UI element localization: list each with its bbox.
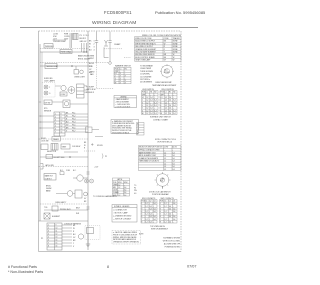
svg-text:PROBE JACK: PROBE JACK (60, 208, 72, 211)
svg-text:P3-2: P3-2 (72, 116, 75, 118)
svg-text:POS: POS (160, 181, 163, 183)
console boundary dashed horizontal (97, 88, 115, 90)
svg-text:WARMER SWITCH: WARMER SWITCH (115, 65, 131, 68)
svg-text:3-4: 3-4 (154, 110, 156, 112)
wire segment row a (55, 85, 61, 87)
svg-text:1-2: 1-2 (164, 152, 166, 154)
left bus ticks (39, 102, 41, 128)
svg-text:SCHEMATIC SHOWN: SCHEMATIC SHOWN (163, 237, 181, 240)
svg-text:SWITCH ASSEMBLY: SWITCH ASSEMBLY (151, 228, 169, 231)
svg-text:3-4: 3-4 (149, 216, 151, 218)
svg-text:NONE: NONE (173, 52, 179, 54)
lock motor assembly (63, 100, 70, 108)
relay K1 labels (85, 86, 87, 95)
svg-text:1-2: 1-2 (164, 169, 166, 171)
control board connector J2 (54, 112, 65, 136)
svg-text:5-6: 5-6 (173, 208, 175, 210)
svg-text:C2: C2 (149, 201, 151, 203)
svg-text:7: 7 (141, 219, 142, 221)
svg-text:N: N (137, 131, 138, 133)
enclosure dashed lock (85, 226, 100, 240)
svg-text:TEMPERATURE ADJUSTMENT: TEMPERATURE ADJUSTMENT (152, 84, 176, 87)
meat probe box (52, 206, 58, 211)
svg-text:11: 11 (56, 231, 58, 233)
svg-text:1-2: 1-2 (164, 221, 166, 223)
svg-text:1: 1 (141, 203, 142, 205)
svg-text:C2: C2 (169, 201, 171, 203)
svg-text:1-2: 1-2 (165, 113, 167, 115)
connector J2 pin numbers (55, 114, 62, 134)
terminal block TB1 (44, 44, 53, 49)
svg-text:3: 3 (160, 208, 161, 210)
svg-text:3: 3 (55, 120, 56, 122)
svg-text:NOTE: NOTE (139, 234, 143, 236)
svg-text:SW2: SW2 (124, 182, 128, 184)
svg-text:C1: C1 (164, 201, 166, 203)
svg-text:C1: C1 (145, 201, 147, 203)
svg-text:5: 5 (160, 108, 161, 110)
svg-text:3-4: 3-4 (149, 214, 151, 216)
timer label box (52, 137, 61, 142)
polarity symbol minus (90, 179, 94, 183)
warning caution text block (111, 120, 139, 134)
P1 wire labels (73, 225, 76, 248)
element hatched block (51, 144, 58, 151)
svg-text:2: 2 (141, 206, 142, 208)
svg-text:3-4: 3-4 (124, 195, 126, 197)
note text block (155, 138, 177, 144)
wire L1 drop (69, 33, 71, 48)
svg-text:8: 8 (141, 221, 142, 223)
svg-text:GND GY: GND GY (80, 41, 88, 43)
svg-text:1 2 3 4: 1 2 3 4 (83, 35, 89, 37)
node dot rail b (83, 51, 84, 52)
svg-text:SYMBOL LEGEND: SYMBOL LEGEND (114, 206, 130, 208)
svg-text:CODE: CODE (164, 38, 170, 40)
connector J2 wires right (65, 114, 88, 132)
wire labels J2 (66, 113, 69, 133)
svg-text:5: 5 (141, 214, 142, 216)
svg-text:2-4: 2-4 (169, 105, 171, 107)
svg-text:2: 2 (160, 206, 161, 208)
svg-text:3-4: 3-4 (173, 100, 175, 102)
svg-text:5-6: 5-6 (153, 219, 155, 221)
svg-text:POS: POS (160, 92, 163, 94)
svg-text:EL: EL (137, 124, 139, 126)
svg-text:▭ OVEN LIGHT SW: ▭ OVEN LIGHT SW (115, 104, 130, 106)
svg-text:12: 12 (61, 126, 63, 128)
svg-text:1-2: 1-2 (165, 97, 167, 99)
svg-text:OFF: OFF (160, 94, 163, 96)
convection motor M1 (60, 85, 67, 96)
svg-text:POSITION DIAGRAM: POSITION DIAGRAM (152, 193, 169, 196)
svg-text:5-6: 5-6 (172, 158, 174, 160)
wire row 193b (73, 193, 75, 195)
relay contact mark (60, 172, 64, 175)
svg-text:P3-5: P3-5 (72, 125, 75, 127)
svg-text:4: 4 (48, 234, 49, 236)
svg-text:6: 6 (48, 240, 49, 242)
svg-text:5-6: 5-6 (153, 211, 155, 213)
svg-text:W: W (89, 44, 91, 46)
svg-text:8: 8 (61, 114, 62, 116)
svg-text:LEGEND: LEGEND (120, 97, 127, 99)
svg-text:H2: H2 (154, 92, 156, 94)
svg-text:4: 4 (160, 105, 161, 107)
svg-text:2-4: 2-4 (169, 100, 171, 102)
wire color code table text rows (135, 37, 180, 62)
title rule (20, 27, 198, 29)
main harness connector P1 (47, 223, 62, 250)
svg-text:6: 6 (160, 216, 161, 218)
oven selector switch table grid (139, 146, 182, 171)
section divider dashed (39, 138, 89, 140)
svg-text:1-2: 1-2 (164, 158, 166, 160)
oven temperature dial chart notes (140, 65, 154, 84)
svg-text:1-2: 1-2 (165, 105, 167, 107)
svg-text:1-2: 1-2 (145, 203, 147, 205)
svg-text:120/240V 60HZ: 120/240V 60HZ (53, 41, 66, 43)
sensor probe labels (44, 108, 52, 113)
svg-text:TO CONSOLE HARNESS P4: TO CONSOLE HARNESS P4 (93, 195, 117, 198)
svg-text:P3-7: P3-7 (72, 131, 75, 133)
svg-text:LATCH SW: LATCH SW (45, 164, 54, 167)
svg-text:4: 4 (141, 211, 142, 213)
svg-text:TO INCREASE: TO INCREASE (140, 65, 154, 68)
svg-text:2-4: 2-4 (150, 110, 152, 112)
svg-text:3-4: 3-4 (173, 113, 175, 115)
svg-text:3-4: 3-4 (124, 192, 126, 194)
wire dashed row (40, 62, 109, 64)
svg-text:3-4: 3-4 (169, 221, 171, 223)
lower dashed divider (40, 203, 88, 205)
svg-text:NONE: NONE (173, 49, 179, 51)
mini element chart box (137, 123, 145, 136)
svg-text:25 DEGREES: 25 DEGREES (140, 82, 153, 84)
node dot rail c (86, 51, 87, 52)
svg-text:5-6: 5-6 (153, 203, 155, 205)
svg-text:DR SW: DR SW (45, 102, 51, 104)
svg-text:○ MOTOR / LAMP: ○ MOTOR / LAMP (113, 212, 128, 215)
label underline (53, 39, 67, 41)
warmer switch table rows (115, 69, 127, 85)
svg-text:2-4: 2-4 (150, 113, 152, 115)
svg-text:13: 13 (56, 237, 58, 239)
connector ticks on bus (87, 172, 90, 209)
svg-text:14: 14 (56, 240, 58, 242)
schematic notes block (163, 237, 181, 249)
indicator lamp 2 (44, 91, 48, 95)
lock switch table left grid (141, 200, 157, 224)
svg-text:3-4: 3-4 (169, 214, 171, 216)
console boundary dashed vertical (96, 63, 98, 89)
svg-text:1-2: 1-2 (146, 102, 148, 104)
relay board K1 (77, 84, 85, 98)
svg-text:Publication No. 5995456085: Publication No. 5995456085 (155, 10, 206, 15)
caution note block lower (112, 231, 141, 245)
svg-text:H1: H1 (169, 92, 171, 94)
svg-text:3-4: 3-4 (154, 102, 156, 104)
svg-text:2-4: 2-4 (150, 100, 152, 102)
svg-text:2: 2 (142, 100, 143, 102)
svg-text:6: 6 (55, 129, 56, 131)
svg-text:H1: H1 (150, 92, 152, 94)
svg-text:POWER AS NOTED: POWER AS NOTED (165, 246, 181, 249)
wire L1 bus vertical (39, 44, 41, 221)
svg-text:16: 16 (56, 246, 58, 248)
svg-text:2: 2 (160, 100, 161, 102)
svg-text:○ BROIL ELEMENT: ○ BROIL ELEMENT (115, 102, 129, 104)
svg-text:3-4: 3-4 (169, 216, 171, 218)
bus tap labels (84, 142, 87, 150)
ignitor box with X (44, 213, 50, 219)
svg-text:5-6: 5-6 (173, 203, 175, 205)
svg-text:6: 6 (142, 110, 143, 112)
control vent box (61, 144, 70, 149)
svg-text:1-2: 1-2 (145, 211, 147, 213)
wire segment row c (84, 89, 88, 91)
svg-text:WITH DOOR CLOSED: WITH DOOR CLOSED (163, 241, 181, 243)
svg-text:WHITE WIRE NEUTRAL N: WHITE WIRE NEUTRAL N (135, 42, 156, 45)
svg-text:1-2: 1-2 (146, 97, 148, 99)
svg-text:DOOR LOCK CAM SWITCH: DOOR LOCK CAM SWITCH (149, 190, 171, 193)
mini element chart text (137, 124, 139, 136)
svg-text:PRIOR TO DISCONNECTION OF: PRIOR TO DISCONNECTION OF (113, 234, 137, 236)
svg-text:BLUE CONTROL BOARD: BLUE CONTROL BOARD (135, 56, 155, 59)
latch switch bracket (41, 164, 44, 170)
splice cross (91, 143, 94, 146)
svg-text:P1: P1 (41, 238, 43, 240)
svg-text:3-4: 3-4 (124, 190, 126, 192)
svg-text:8: 8 (160, 221, 161, 223)
wire door row (52, 101, 63, 103)
svg-text:1-2: 1-2 (164, 206, 166, 208)
svg-text:6: 6 (141, 216, 142, 218)
svg-text:POS: POS (160, 201, 163, 203)
svg-text:P4: P4 (134, 188, 136, 190)
wire L2 bus vertical (87, 31, 89, 250)
svg-text:3-4: 3-4 (173, 110, 175, 112)
wire lock row (70, 103, 88, 105)
svg-text:LOCK SW: LOCK SW (41, 141, 49, 143)
wire neutral bus vertical (41, 52, 43, 139)
svg-text:5-6: 5-6 (172, 155, 174, 157)
svg-text:POS: POS (113, 182, 116, 184)
svg-text:BROWN OVEN SENSOR: BROWN OVEN SENSOR (135, 54, 155, 56)
svg-text:P3-3: P3-3 (72, 119, 75, 121)
svg-text:1: 1 (48, 225, 49, 227)
warming element E3 leads (95, 32, 112, 65)
wire row 193 (56, 193, 67, 195)
svg-text:YELLOW SURF ELEMENT: YELLOW SURF ELEMENT (135, 52, 156, 54)
thermal switch S9 (104, 40, 109, 58)
svg-text:7: 7 (160, 219, 161, 221)
svg-text:POS: POS (141, 201, 144, 203)
wire row 152 (64, 151, 78, 153)
svg-text:1-2: 1-2 (145, 214, 147, 216)
svg-text:5: 5 (48, 237, 49, 239)
svg-text:ON POSITIONS 2-6: ON POSITIONS 2-6 (157, 142, 172, 144)
svg-text:OVEN TEMP: OVEN TEMP (140, 68, 152, 70)
svg-text:NONE: NONE (173, 46, 179, 48)
svg-text:6-9: 6-9 (134, 193, 136, 195)
polarity symbol plus (85, 179, 89, 183)
svg-text:9: 9 (61, 117, 62, 119)
svg-text:1: 1 (55, 114, 56, 116)
schematic frame (39, 31, 182, 252)
svg-text:5-6: 5-6 (172, 166, 174, 168)
svg-text:BK W R: BK W R (80, 38, 87, 40)
cooling fan motor M2 (68, 87, 75, 94)
svg-text:SELECTOR: SELECTOR (47, 151, 57, 153)
oven selector switch table text (139, 146, 177, 171)
lamp small circle (84, 192, 88, 196)
svg-text:C3: C3 (153, 201, 155, 203)
svg-text:3-4: 3-4 (154, 100, 156, 102)
svg-text:2-4: 2-4 (169, 113, 171, 115)
svg-text:3-4: 3-4 (169, 206, 171, 208)
symbol legend rows (113, 206, 132, 221)
svg-text:3-4: 3-4 (172, 169, 174, 171)
wire warmer dashed (104, 48, 122, 50)
hi-limit switch box (46, 155, 53, 159)
svg-text:1-2: 1-2 (145, 206, 147, 208)
probe labels extra (44, 207, 81, 215)
double oven fuse box (60, 50, 72, 54)
svg-text:15 AMP: 15 AMP (114, 43, 121, 46)
svg-text:7: 7 (55, 132, 56, 134)
svg-text:CONV: CONV (61, 94, 67, 96)
svg-text:OVEN CAVITY: OVEN CAVITY (55, 201, 67, 204)
svg-text:BK-W: BK-W (89, 63, 94, 65)
svg-text:3-4: 3-4 (149, 206, 151, 208)
svg-text:THERMOSTAT: THERMOSTAT (46, 65, 59, 68)
svg-text:3-4: 3-4 (149, 221, 151, 223)
wire row 221 (39, 220, 89, 222)
wire mid rail (40, 65, 92, 67)
svg-text:DLB RLY: DLB RLY (45, 178, 53, 180)
indicator lamp 1 (44, 85, 48, 89)
svg-text:2: 2 (94, 44, 95, 46)
svg-text:OVEN THERMOSTAT: OVEN THERMOSTAT (155, 81, 172, 84)
svg-text:1-2: 1-2 (145, 219, 147, 221)
surface indicator labels (44, 78, 56, 83)
svg-text:1-2: 1-2 (146, 100, 148, 102)
svg-text:5-6: 5-6 (153, 208, 155, 210)
svg-text:TRACER: TRACER (173, 37, 181, 40)
svg-text:CONT: CONT (164, 147, 169, 149)
lock switch table right text (160, 201, 176, 224)
svg-text:NONE: NONE (173, 41, 179, 43)
svg-text:BROIL ELEMENT ONLY: BROIL ELEMENT ONLY (139, 155, 157, 157)
svg-text:BAKE 2850W: BAKE 2850W (78, 55, 89, 58)
svg-text:3-4: 3-4 (149, 208, 151, 210)
svg-text:ELEMENT: ELEMENT (52, 216, 60, 218)
svg-text:4: 4 (142, 105, 143, 107)
svg-text:3: 3 (48, 231, 49, 233)
wire row 157 (40, 156, 88, 158)
indicator dashed enclosure (42, 83, 55, 98)
surface unit switch table right text (160, 92, 175, 115)
svg-text:9: 9 (56, 225, 57, 227)
lock switch table left text (141, 201, 155, 224)
element taps dashed (124, 57, 131, 59)
terminal block pins text (80, 35, 89, 43)
power supply labels L1 N L2 (53, 34, 59, 41)
svg-text:WIRE COLOR CODE: WIRE COLOR CODE (135, 38, 152, 40)
svg-text:8: 8 (48, 246, 49, 248)
svg-text:H2: H2 (173, 92, 175, 94)
bus tap lower labels (84, 198, 87, 203)
svg-text:L1: L1 (146, 92, 148, 94)
svg-text:⚊ SWITCH CONTACT: ⚊ SWITCH CONTACT (113, 218, 132, 221)
wire segment row b (67, 89, 68, 91)
svg-text:1-2: 1-2 (118, 195, 120, 197)
oven light legend rows (115, 97, 130, 109)
dashed stub 151 (84, 150, 96, 152)
svg-text:P3-6: P3-6 (72, 128, 75, 130)
door latch box mid (86, 127, 93, 133)
wire top rail (40, 51, 88, 53)
svg-text:L1: L1 (137, 126, 139, 128)
svg-text:CLOCKWISE: CLOCKWISE (140, 76, 152, 78)
svg-text:SPLICE: SPLICE (97, 145, 103, 147)
oven boundary dashed (39, 166, 89, 168)
svg-text:8: 8 (107, 265, 109, 269)
svg-text:NOTE: CONTACTS CYCLE: NOTE: CONTACTS CYCLE (155, 138, 177, 141)
svg-text:120V LAMPS: 120V LAMPS (44, 80, 56, 83)
svg-text:POS: POS (142, 92, 145, 94)
svg-text:6: 6 (160, 110, 161, 112)
svg-text:SW1: SW1 (118, 182, 122, 184)
svg-text:12: 12 (56, 234, 58, 236)
svg-text:11: 11 (61, 123, 63, 125)
latch table side note (134, 185, 138, 195)
connector P1 pin numbers (48, 225, 57, 248)
svg-text:P3-4: P3-4 (72, 122, 75, 124)
svg-text:15: 15 (56, 243, 58, 245)
svg-text:5: 5 (55, 126, 56, 128)
svg-text:3-4: 3-4 (124, 187, 126, 189)
svg-text:1-2: 1-2 (165, 108, 167, 110)
svg-text:SURFACE UNIT SWITCH: SURFACE UNIT SWITCH (150, 116, 171, 119)
broil labels group (46, 186, 52, 193)
svg-text:5-6: 5-6 (173, 219, 175, 221)
svg-text:1: 1 (94, 41, 95, 43)
svg-text:1-2: 1-2 (146, 113, 148, 115)
wire stub console (95, 136, 103, 138)
svg-text:SENSOR: SENSOR (44, 111, 52, 113)
wire pin drops (82, 43, 87, 52)
svg-text:# Functional Parts: # Functional Parts (8, 265, 37, 269)
svg-text:1-2: 1-2 (164, 211, 166, 213)
latch motor table rows (113, 178, 128, 197)
node junction 157 (69, 156, 71, 158)
svg-text:2-4: 2-4 (169, 97, 171, 99)
node dot rail a (69, 51, 70, 52)
relay contact labels row (60, 170, 77, 172)
svg-text:1-3: 1-3 (164, 155, 166, 157)
svg-text:COUNTER-: COUNTER- (140, 74, 150, 76)
door latch wire (92, 129, 99, 131)
buzzer circle (78, 234, 83, 239)
oven vent text block (90, 72, 95, 77)
oven light legend box (114, 96, 137, 108)
power cord labels (64, 34, 70, 41)
svg-text:1-2: 1-2 (146, 108, 148, 110)
svg-text:ALL SWITCHES OFF: ALL SWITCHES OFF (164, 243, 180, 246)
svg-text:2-4: 2-4 (150, 97, 152, 99)
